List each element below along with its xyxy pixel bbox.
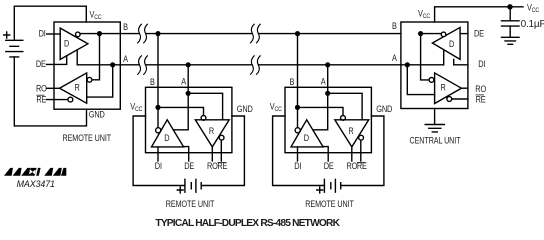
svg-text:A: A [123, 55, 128, 65]
svg-text:REMOTE UNIT: REMOTE UNIT [166, 200, 215, 210]
svg-text:0.1µF: 0.1µF [521, 19, 544, 30]
svg-text:A: A [392, 53, 397, 63]
svg-text:D: D [164, 133, 169, 143]
svg-text:RO: RO [36, 84, 47, 94]
svg-text:GND: GND [237, 105, 253, 115]
svg-text:B: B [123, 22, 128, 32]
svg-text:DI: DI [155, 161, 162, 171]
svg-text:B: B [392, 22, 397, 32]
svg-text:CENTRAL UNIT: CENTRAL UNIT [410, 136, 461, 146]
svg-text:REMOTE UNIT: REMOTE UNIT [63, 133, 112, 143]
svg-text:DE: DE [184, 161, 195, 171]
svg-text:DI: DI [39, 29, 46, 39]
svg-text:RE: RE [36, 95, 47, 105]
svg-text:D: D [64, 39, 69, 49]
svg-text:RO: RO [207, 161, 218, 171]
svg-text:RO: RO [475, 84, 486, 94]
svg-text:R: R [209, 126, 214, 136]
svg-text:RE: RE [476, 95, 487, 105]
svg-text:R: R [441, 83, 446, 93]
svg-text:B: B [150, 77, 155, 87]
svg-text:D: D [449, 39, 454, 49]
svg-text:DE: DE [474, 29, 485, 39]
svg-text:R: R [75, 83, 80, 93]
svg-text:GND: GND [89, 110, 105, 120]
svg-text:A: A [181, 77, 186, 87]
svg-text:TYPICAL HALF-DUPLEX RS-485 NET: TYPICAL HALF-DUPLEX RS-485 NETWORK [155, 218, 340, 229]
svg-text:MAX3471: MAX3471 [17, 179, 55, 189]
svg-text:DE: DE [36, 59, 47, 69]
svg-text:DI: DI [478, 59, 485, 69]
